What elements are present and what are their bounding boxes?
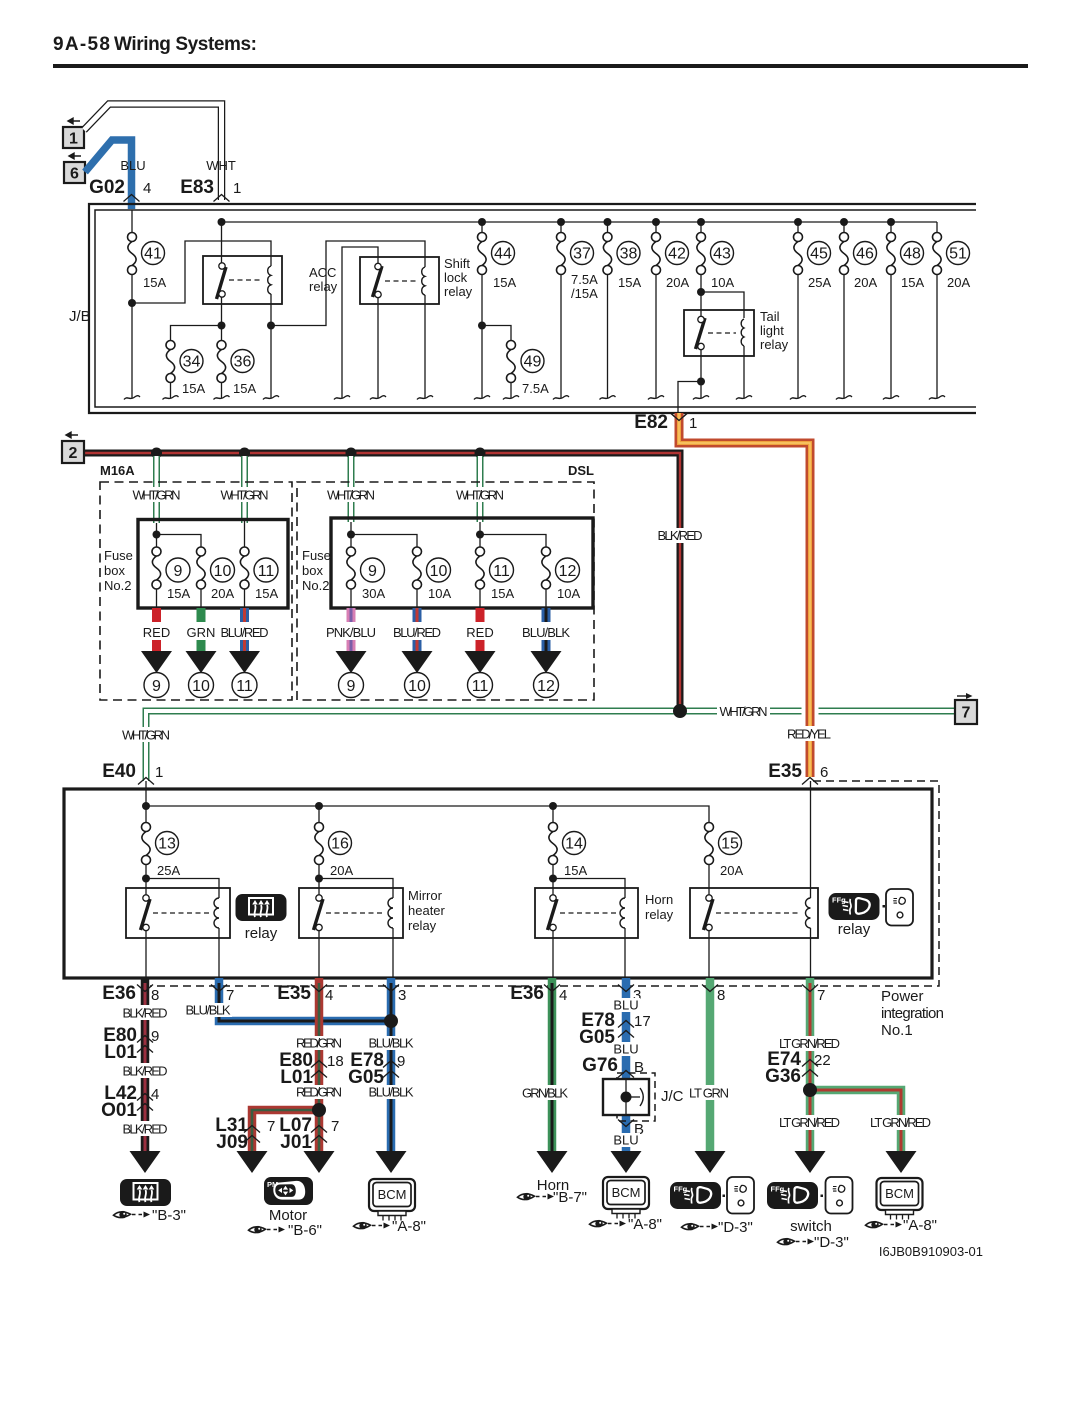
wire branch relay3 coil [553, 879, 625, 899]
svg-text:E36: E36 [510, 983, 544, 1004]
see B-6 [249, 1226, 286, 1233]
wire RED/GRN column E35-4 [315, 978, 324, 1110]
label BLK/RED 1 [121, 1005, 169, 1020]
wire fuse14 column through relay3 switch [552, 806, 554, 978]
svg-text:"B-3": "B-3" [152, 1207, 186, 1224]
svg-text:3: 3 [398, 987, 406, 1004]
svg-text:BLU/BLK: BLU/BLK [522, 625, 570, 640]
svg-text:J/C: J/C [661, 1088, 684, 1105]
fuse 9 [150, 547, 163, 589]
svg-text:GRN/BLK: GRN/BLK [522, 1086, 568, 1101]
svg-text:15A: 15A [491, 586, 514, 601]
svg-text:15: 15 [721, 836, 739, 853]
svg-text:BLK/RED: BLK/RED [123, 1064, 168, 1079]
svg-text:No.2: No.2 [104, 578, 131, 593]
svg-text:E82: E82 [634, 412, 668, 433]
svg-text:41: 41 [144, 246, 162, 263]
svg-text:GRN: GRN [187, 625, 216, 640]
svg-text:36: 36 [234, 354, 252, 371]
svg-text:No.1: No.1 [881, 1022, 913, 1039]
arrow to BCM [376, 1151, 407, 1173]
svg-text:J01: J01 [280, 1132, 312, 1153]
svg-text:"D-3": "D-3" [718, 1219, 753, 1236]
wire WHT/GRN drop 1 [153, 456, 160, 523]
wire relay3 coil down [624, 928, 626, 978]
fog switch icon [767, 1182, 818, 1209]
svg-text:4: 4 [559, 987, 567, 1004]
svg-text:11: 11 [493, 563, 510, 580]
fuse 15 [703, 823, 716, 865]
connector pin B below J/C [618, 1120, 634, 1127]
svg-text:9A-58: 9A-58 [53, 34, 110, 55]
internal wires [157, 521, 245, 608]
svg-text:Fuse: Fuse [104, 548, 133, 563]
svg-text:20A: 20A [211, 586, 234, 601]
wire PNK/BLU stub out 9 [347, 608, 356, 651]
svg-text:WHT/GRN: WHT/GRN [327, 488, 375, 503]
label LT GRN/RED 2 [777, 1115, 842, 1130]
junction dot LT GRN/RED [803, 1083, 817, 1097]
svg-text:"B-6": "B-6" [288, 1222, 322, 1239]
see A-8 [354, 1222, 391, 1229]
svg-text:13: 13 [158, 836, 176, 853]
svg-text:9: 9 [368, 563, 377, 580]
svg-text:20A: 20A [666, 275, 689, 290]
relay 4 (front fog) [690, 888, 818, 938]
svg-text:switch: switch [790, 1218, 832, 1235]
svg-text:22: 22 [814, 1052, 831, 1069]
label BLU 2 [612, 1042, 640, 1056]
fuse 48 [885, 233, 898, 275]
wire branch ACC coil to shift coil [271, 241, 425, 326]
wire LT GRN column pin8 [706, 978, 715, 1151]
svg-text:RED: RED [466, 625, 493, 640]
wire RED stub out 9 [152, 608, 161, 651]
svg-text:relay: relay [760, 337, 789, 352]
svg-text:20A: 20A [947, 275, 970, 290]
svg-text:20A: 20A [854, 275, 877, 290]
svg-text:integration: integration [881, 1005, 944, 1022]
svg-text:BLK/RED: BLK/RED [658, 528, 703, 543]
svg-text:relay: relay [444, 284, 473, 299]
label BLU 1 [612, 998, 640, 1012]
svg-text:6: 6 [820, 764, 828, 781]
svg-text:1: 1 [233, 180, 241, 197]
wire BLU column pin3 to J/C [622, 978, 631, 1079]
mirror motor icon [264, 1177, 313, 1205]
wire fuse13 column through relay1 switch [145, 806, 147, 978]
svg-text:relay: relay [408, 918, 437, 933]
label LT GRN/RED 3 [868, 1115, 933, 1130]
svg-text:44: 44 [494, 246, 512, 263]
svg-text:E36: E36 [102, 983, 136, 1004]
arrow out 9 DSL [336, 651, 367, 673]
label BLU/BLK pin7 [184, 1003, 232, 1017]
dashed box M16A [100, 482, 292, 700]
labels WHT/GRN [130, 487, 183, 502]
relay 3 (horn) [535, 888, 638, 938]
wire LT GRN/RED column pin7 [806, 978, 815, 1151]
svg-text:7.5A: 7.5A [522, 381, 549, 396]
arrow to BCM 2 [611, 1151, 642, 1173]
fuse 49 [505, 341, 518, 383]
wire fuse16 column through relay2 switch [318, 806, 320, 978]
svg-text:G02: G02 [89, 177, 125, 198]
wire BLU from box 6 to G02 [85, 140, 132, 209]
wire WHT/GRN drop 3 [348, 456, 355, 522]
label LT GRN/RED 1 [777, 1036, 842, 1051]
svg-text:WHT/GRN: WHT/GRN [122, 728, 170, 743]
arrow to defogger [130, 1151, 161, 1173]
fuse 10 DSL [411, 547, 424, 589]
svg-text:G36: G36 [765, 1066, 801, 1087]
svg-text:BLU: BLU [613, 1133, 638, 1148]
label BLK/RED 3 [121, 1121, 169, 1136]
svg-text:7: 7 [331, 1118, 339, 1135]
wire fuse37 column [560, 222, 562, 398]
wire relay1 coil down [218, 928, 220, 978]
fuse 16 [313, 823, 326, 865]
dashed box DSL [297, 482, 594, 700]
wire GRN stub out 10 [197, 608, 206, 651]
fuse 11 [238, 547, 251, 589]
wire shift switch top feed [342, 247, 378, 398]
BCM icon 1 [369, 1179, 415, 1221]
wire fuse45 column [797, 222, 799, 398]
svg-text:Fuse: Fuse [302, 548, 331, 563]
svg-text:E35: E35 [768, 761, 802, 782]
svg-text:DSL: DSL [568, 463, 594, 478]
wire LT GRN/RED branch to BCM [810, 1090, 901, 1151]
svg-text:"A-8": "A-8" [392, 1218, 426, 1235]
svg-text:20A: 20A [330, 863, 353, 878]
svg-text:BLU/BLK: BLU/BLK [369, 1036, 414, 1051]
svg-text:heater: heater [408, 903, 446, 918]
svg-text:WHT/GRN: WHT/GRN [720, 704, 768, 719]
svg-text:49: 49 [524, 354, 542, 371]
wire branch fuse34 [171, 326, 222, 399]
svg-text:WHT/GRN: WHT/GRN [133, 488, 181, 503]
junction dots on bus [151, 448, 162, 459]
svg-text:M16A: M16A [100, 463, 135, 478]
svg-text:2: 2 [69, 445, 78, 462]
arrow out 10 DSL [402, 651, 433, 673]
wire BLU/BLK stub out 12 [542, 608, 551, 651]
junction dot BLU/BLK [384, 1014, 398, 1028]
wire branch relay1 coil [146, 879, 219, 899]
svg-text:G76: G76 [582, 1055, 618, 1076]
rear defogger icon [120, 1179, 171, 1206]
arrow out 9 [141, 651, 172, 673]
connector box 7 [955, 693, 977, 724]
svg-text:15A: 15A [255, 586, 278, 601]
svg-text:BLU: BLU [613, 998, 638, 1013]
internal wires [351, 522, 546, 608]
svg-text:G05: G05 [579, 1027, 615, 1048]
svg-text:J/B: J/B [69, 308, 91, 325]
svg-text:RED: RED [143, 625, 170, 640]
label BLU/BLK 2 [367, 1036, 415, 1050]
wire BLU/RED stub out 11 [240, 608, 249, 651]
fog lamp icon 1 [670, 1182, 721, 1209]
see D-3 [778, 1238, 815, 1245]
svg-text:9: 9 [174, 563, 183, 580]
connector box 1 [63, 118, 84, 148]
fuse 43 [695, 233, 708, 275]
svg-text:15A: 15A [182, 381, 205, 396]
svg-text:BLK/RED: BLK/RED [123, 1122, 168, 1137]
label RED/GRN 1 [295, 1036, 343, 1050]
junction dots in J/B [218, 218, 226, 226]
wire RED stub out 11 [476, 608, 485, 651]
svg-text:14: 14 [565, 836, 583, 853]
svg-text:9: 9 [152, 678, 161, 695]
fog relay small dot [883, 905, 886, 908]
wire fuse48 column [890, 222, 892, 398]
wire GRN/BLK column E36-4 [548, 978, 557, 1151]
connector box 6 [64, 153, 85, 183]
label RED/GRN 2 [295, 1085, 343, 1099]
svg-text:15A: 15A [618, 275, 641, 290]
svg-text:17: 17 [634, 1013, 651, 1030]
svg-text:E40: E40 [102, 761, 136, 782]
svg-text:9: 9 [347, 678, 356, 695]
svg-text:34: 34 [183, 354, 201, 371]
ACC relay [203, 256, 282, 304]
wire BLU/BLK junction down to BCM [387, 978, 396, 1151]
svg-text:43: 43 [713, 246, 731, 263]
fuse 11 DSL [474, 547, 487, 589]
svg-text:BLU/RED: BLU/RED [221, 625, 269, 640]
svg-text:WHT: WHT [206, 158, 236, 173]
svg-text:7: 7 [226, 987, 234, 1004]
label WHT/GRN vertical [120, 727, 172, 742]
label GRN/BLK [520, 1085, 570, 1100]
svg-text:relay: relay [838, 921, 871, 938]
svg-text:4: 4 [143, 180, 151, 197]
svg-text:46: 46 [856, 246, 874, 263]
svg-text:15A: 15A [143, 275, 166, 290]
svg-text:51: 51 [949, 246, 967, 263]
wire shift coil column down [424, 295, 426, 398]
svg-text:1: 1 [689, 415, 697, 432]
svg-text:E83: E83 [180, 177, 214, 198]
svg-text:15A: 15A [493, 275, 516, 290]
svg-text:"D-3": "D-3" [814, 1234, 849, 1251]
svg-text:RED/GRN: RED/GRN [296, 1036, 342, 1051]
svg-text:WHT/GRN: WHT/GRN [221, 488, 269, 503]
relay 2 (mirror heater) [299, 888, 403, 938]
arrow out 11 [229, 651, 260, 673]
fuse 9 DSL [345, 547, 358, 589]
fog relay icon [829, 893, 880, 920]
svg-text:BLU/RED: BLU/RED [393, 625, 441, 640]
wire WHT/GRN drop 2 [241, 456, 248, 523]
svg-text:11: 11 [236, 678, 253, 695]
wire relay2 coil down [392, 928, 394, 978]
svg-text:Horn: Horn [645, 892, 673, 907]
wire BLU/RED stub out 10 [413, 608, 422, 651]
wire fuse41 column [131, 210, 133, 398]
svg-text:48: 48 [903, 246, 921, 263]
svg-text:ACC: ACC [309, 265, 336, 280]
svg-text:20A: 20A [720, 863, 743, 878]
svg-text:1: 1 [155, 764, 163, 781]
svg-text:lock: lock [444, 270, 468, 285]
junction connector J/C box [617, 1073, 655, 1121]
wire WHT/GRN drop 4 [477, 456, 484, 522]
svg-text:18: 18 [327, 1053, 344, 1070]
svg-text:25A: 25A [157, 863, 180, 878]
svg-text:LT GRN/RED: LT GRN/RED [870, 1115, 931, 1130]
svg-text:"A-8": "A-8" [903, 1217, 937, 1234]
wire RED/YEL overdraw at crossing [802, 700, 819, 723]
fuse 41 [126, 233, 139, 275]
svg-text:PNK/BLU: PNK/BLU [326, 625, 376, 640]
svg-text:37: 37 [573, 246, 591, 263]
BCM icon 2 [603, 1177, 649, 1219]
wire fuse51 column [936, 222, 938, 398]
wire ACC coil column down [270, 294, 272, 398]
wire tail switch to E82 [678, 382, 701, 414]
svg-text:BLU/BLK: BLU/BLK [186, 1003, 231, 1018]
svg-text:9: 9 [397, 1053, 405, 1070]
svg-text:15A: 15A [233, 381, 256, 396]
svg-text:7: 7 [962, 705, 971, 722]
see A-8 [590, 1220, 627, 1227]
svg-text:9: 9 [151, 1028, 159, 1045]
arrow out 12 DSL [531, 651, 562, 673]
svg-text:relay: relay [245, 925, 278, 942]
svg-text:E35: E35 [277, 983, 311, 1004]
svg-text:box: box [104, 563, 125, 578]
svg-text:RED/GRN: RED/GRN [296, 1085, 342, 1100]
wire E35 feed to relay4 coil [810, 781, 812, 898]
svg-text:LT GRN/RED: LT GRN/RED [779, 1115, 840, 1130]
svg-text:10: 10 [192, 678, 210, 695]
Tail light relay [684, 310, 754, 356]
label BLU 3 [612, 1133, 640, 1147]
wire branch tail relay coil [701, 292, 744, 318]
defogger relay icon [236, 894, 287, 921]
arrow to fog switch [795, 1151, 826, 1173]
svg-text:12: 12 [559, 563, 577, 580]
wire E83 column through ACC switch [221, 222, 223, 398]
arrow out 10 [186, 651, 217, 673]
svg-text:Tail: Tail [760, 309, 780, 324]
svg-text:box: box [302, 563, 323, 578]
svg-text:30A: 30A [362, 586, 385, 601]
svg-text:RED/YEL: RED/YEL [787, 727, 831, 742]
svg-text:15A: 15A [564, 863, 587, 878]
junction dots power bus [142, 802, 150, 810]
label LT GRN [686, 1085, 732, 1100]
wire fuse43 column to tail relay switch [700, 222, 702, 398]
wire fuse46 column [843, 222, 845, 398]
label BLK/RED 2 [121, 1063, 169, 1078]
svg-text:L01: L01 [104, 1042, 137, 1063]
svg-text:42: 42 [668, 246, 686, 263]
wire RED/YEL E82 to E35 [679, 413, 810, 777]
svg-text:15A: 15A [901, 275, 924, 290]
fuse 13 [140, 823, 153, 865]
bus wire in power box [146, 781, 709, 822]
svg-text:Shift: Shift [444, 256, 470, 271]
fuse 44 [476, 233, 489, 275]
svg-text:O01: O01 [101, 1100, 137, 1121]
wire fuse38 column [607, 222, 609, 398]
see B-7 [518, 1193, 555, 1200]
fuse 42 [650, 233, 663, 275]
arrow to fog lamp [695, 1151, 726, 1173]
label BLU/BLK 3 [367, 1085, 415, 1099]
svg-text:10A: 10A [711, 275, 734, 290]
fuse 38 [601, 233, 614, 275]
fuse 12 DSL [540, 547, 553, 589]
svg-text:7: 7 [817, 987, 825, 1004]
wire fuse42 column [655, 222, 657, 398]
svg-text:8: 8 [151, 987, 159, 1004]
svg-text:10A: 10A [428, 586, 451, 601]
fog relay side box [886, 889, 913, 926]
wire WHT from box 1 to E83 [84, 104, 222, 200]
svg-text:15A: 15A [167, 586, 190, 601]
wire BLU below J/C [622, 1115, 631, 1151]
svg-text:LT GRN: LT GRN [689, 1086, 729, 1101]
relay 1 (rear defogger) [126, 888, 230, 938]
wire shift switch bottom [377, 298, 379, 398]
svg-text:38: 38 [620, 246, 638, 263]
svg-text:/15A: /15A [571, 286, 598, 301]
svg-text:"B-7": "B-7" [553, 1189, 587, 1206]
fuse 45 [792, 233, 805, 275]
svg-text:4: 4 [151, 1086, 159, 1103]
svg-text:4: 4 [325, 987, 333, 1004]
wire fuse15 column through relay4 switch [708, 822, 710, 978]
fuse 34 [164, 341, 177, 383]
fuse 37 [555, 233, 568, 275]
svg-text:10: 10 [408, 678, 426, 695]
svg-text:I6JB0B910903-01: I6JB0B910903-01 [879, 1244, 983, 1259]
wire BLK/RED column E36-8 [141, 978, 150, 1151]
svg-text:No.2: No.2 [302, 578, 329, 593]
connector box 2 [62, 432, 84, 463]
fuse 46 [838, 233, 851, 275]
wire tail coil down [743, 346, 745, 398]
svg-text:8: 8 [717, 987, 725, 1004]
fuse 14 [547, 823, 560, 865]
bus wire in J/B [222, 221, 938, 223]
svg-text:Power: Power [881, 988, 924, 1005]
svg-text:12: 12 [537, 678, 555, 695]
svg-text:J09: J09 [216, 1132, 248, 1153]
svg-text:BLK/RED: BLK/RED [123, 1006, 168, 1021]
svg-text:BLU/BLK: BLU/BLK [369, 1085, 414, 1100]
svg-text:10: 10 [430, 563, 448, 580]
label WHT/GRN horizontal [717, 704, 770, 719]
wire BLU/BLK pin7 to junction [219, 978, 391, 1021]
arrow to horn [537, 1151, 568, 1173]
svg-text:10A: 10A [557, 586, 580, 601]
svg-text:7.5A: 7.5A [571, 272, 598, 287]
see B-3 [114, 1211, 151, 1218]
svg-text:11: 11 [472, 678, 489, 695]
wire fuse44 column [481, 222, 483, 398]
wire relay4 coil down [810, 928, 812, 978]
svg-text:"A-8": "A-8" [628, 1216, 662, 1233]
label RED/YEL [785, 726, 833, 741]
wire branch relay2 coil [319, 879, 393, 899]
